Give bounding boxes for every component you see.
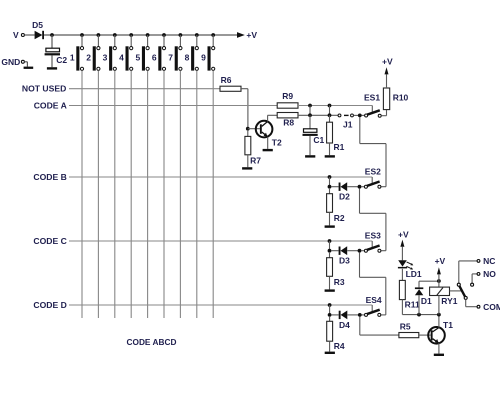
wire CODE A after R9 <box>298 105 372 107</box>
switch ES3 <box>364 246 381 253</box>
svg-text:D5: D5 <box>32 20 43 30</box>
svg-text:V: V <box>13 30 19 40</box>
svg-text:8: 8 <box>185 52 190 62</box>
svg-text:ES3: ES3 <box>365 230 381 240</box>
terminal NO <box>477 273 480 276</box>
junction ES2 chain <box>358 185 362 189</box>
junction rail/S4 <box>129 33 133 37</box>
svg-text:7: 7 <box>168 52 173 62</box>
pushbutton S1 <box>76 46 83 70</box>
wire T2 emitter down <box>267 137 269 149</box>
arrow +V LED <box>400 240 404 247</box>
wire to ES4 <box>362 314 365 316</box>
resistor R11 <box>399 280 405 299</box>
ground T2 <box>263 149 273 151</box>
wire rail to S1 <box>81 35 83 46</box>
diode D4 <box>331 311 358 320</box>
wire to ES2 <box>361 186 364 188</box>
resistor R5 <box>399 333 419 338</box>
arrow +V R10 <box>385 67 389 74</box>
wire down to D4 <box>329 305 331 315</box>
wire down to D2 <box>329 177 331 187</box>
wire chain1 right <box>360 143 386 145</box>
wire to C1 <box>309 115 311 129</box>
wire D1 to +V node <box>419 280 439 282</box>
ground C1 <box>305 155 315 157</box>
pushbutton S3 <box>109 46 116 70</box>
pushbutton S5 <box>142 46 149 70</box>
relay contact NO <box>471 283 474 286</box>
junction R8 line / C1 <box>308 113 312 117</box>
junction ES3 chain <box>358 249 362 253</box>
svg-text:CODE D: CODE D <box>33 300 66 310</box>
LED LD1 <box>398 260 413 269</box>
junction rail/S9 <box>211 33 215 37</box>
junction R8 line / R1 <box>328 113 332 117</box>
junction ES4 chain <box>358 313 362 317</box>
wire rail to S7 <box>179 35 181 46</box>
svg-text:5: 5 <box>135 52 140 62</box>
wire node down 2 <box>329 106 331 116</box>
svg-text:R10: R10 <box>393 92 409 102</box>
svg-text:C2: C2 <box>56 55 67 65</box>
pushbutton S8 <box>191 46 198 70</box>
ground R4 <box>325 352 335 354</box>
svg-text:CODE ABCD: CODE ABCD <box>127 337 177 347</box>
transistor T1 <box>428 327 445 344</box>
junction rail/S3 <box>113 33 117 37</box>
svg-text:R7: R7 <box>250 155 261 165</box>
wire chain4 to R5 <box>360 334 399 336</box>
wire +V rail <box>44 34 237 36</box>
svg-text:ES1: ES1 <box>364 92 380 102</box>
wire D1 down <box>418 295 420 314</box>
switch ES1 <box>365 110 382 117</box>
svg-text:+V: +V <box>398 229 409 239</box>
wire node down 1 <box>309 106 311 116</box>
terminal GND <box>21 60 24 63</box>
wire rail to S5 <box>147 35 149 46</box>
wire to R1 <box>329 115 331 122</box>
resistor R10 <box>383 88 389 110</box>
wire up to R10 <box>386 110 388 116</box>
svg-text:1: 1 <box>70 52 75 62</box>
wire chain3 to ES4 <box>381 314 386 316</box>
wire chain1 down2 <box>385 144 387 187</box>
wire CODE C line <box>69 240 372 242</box>
wire arrow to node <box>438 274 440 281</box>
ground R1 <box>325 155 335 157</box>
diode D2 <box>331 182 358 191</box>
svg-text:D4: D4 <box>339 320 350 330</box>
wire COM right <box>466 306 478 308</box>
diode D1 <box>415 287 423 295</box>
svg-text:2: 2 <box>86 52 91 62</box>
junction C2/rail <box>50 33 54 37</box>
resistor R7 <box>245 136 251 154</box>
wire R2 to ground <box>329 212 331 225</box>
svg-text:ES4: ES4 <box>366 295 382 305</box>
svg-text:COM: COM <box>483 302 500 312</box>
resistor R2 <box>327 194 333 213</box>
svg-text:R6: R6 <box>221 75 232 85</box>
svg-text:CODE A: CODE A <box>34 101 67 111</box>
wire R7 to ground <box>247 155 249 167</box>
svg-text:GND: GND <box>1 57 20 67</box>
resistor R6 <box>220 86 241 91</box>
wire relay bottom node <box>402 314 439 316</box>
arrow +V relay <box>437 267 441 274</box>
svg-text:D2: D2 <box>339 192 350 202</box>
pushbutton S7 <box>175 46 182 70</box>
wire COM down <box>465 299 467 306</box>
wire to D1 <box>418 281 420 287</box>
wire column S2 <box>97 71 99 319</box>
svg-text:R5: R5 <box>400 321 411 331</box>
wire rail to S2 <box>97 35 99 46</box>
svg-text:R3: R3 <box>334 277 345 287</box>
wire +V to LED <box>401 247 403 261</box>
relay contact pivot <box>457 283 460 286</box>
ground T1 <box>434 354 444 356</box>
wire rail to S6 <box>163 35 165 46</box>
wire ES1 to R10 <box>381 115 386 117</box>
svg-text:+V: +V <box>246 30 257 40</box>
wire chain2 to ES3 <box>381 250 386 252</box>
svg-text:D1: D1 <box>421 296 432 306</box>
svg-text:R8: R8 <box>283 118 294 128</box>
terminal NC <box>477 260 480 263</box>
wire rail to S9 <box>212 35 214 46</box>
resistor R8 <box>277 113 298 118</box>
wire to ES1 <box>362 114 365 116</box>
wire R6 down to T2 base <box>247 89 249 129</box>
wire down to D3 <box>329 241 331 251</box>
junction rail/S6 <box>162 33 166 37</box>
junction rail/S5 <box>146 33 150 37</box>
wire GND <box>24 61 27 63</box>
wire NOT USED line <box>69 88 220 90</box>
wire chain2 down <box>359 188 361 213</box>
wire rail to S4 <box>130 35 132 46</box>
wire CODE B down to ES2 lever <box>371 177 373 184</box>
ground C2 <box>47 67 57 69</box>
wire CODE A line <box>69 105 277 107</box>
junction D1 bottom <box>417 313 421 317</box>
wire chain1 to ES2 <box>381 186 386 188</box>
svg-text:R11: R11 <box>405 300 420 310</box>
wire node to coil <box>438 281 440 287</box>
svg-text:4: 4 <box>119 52 124 62</box>
resistor R1 <box>327 122 333 143</box>
resistor R4 <box>327 321 333 341</box>
wire NO down <box>471 274 473 283</box>
wire column S9 <box>212 71 214 319</box>
resistor R9 <box>277 103 298 108</box>
junction CODE A / R1 <box>328 104 332 108</box>
junction T2 base <box>246 127 250 131</box>
svg-text:NOT USED: NOT USED <box>22 84 66 94</box>
wire chain2 down2 <box>385 213 387 250</box>
switch ES2 <box>364 182 381 189</box>
svg-text:9: 9 <box>201 52 206 62</box>
wire CODE B line <box>69 176 372 178</box>
wire column S5 <box>147 71 149 319</box>
svg-text:+V: +V <box>382 57 393 67</box>
junction rail/S1 <box>80 33 84 37</box>
wire NO right <box>472 273 477 275</box>
svg-text:RY1: RY1 <box>441 296 457 306</box>
svg-text:LD1: LD1 <box>406 269 422 279</box>
svg-text:D3: D3 <box>339 256 350 266</box>
svg-text:CODE B: CODE B <box>33 172 66 182</box>
wire to R4 <box>329 316 331 321</box>
wire NC down <box>458 261 460 283</box>
wire column S1 <box>81 71 83 319</box>
wire column S7 <box>179 71 181 319</box>
wire coil to bottom node <box>438 296 440 315</box>
wire R6 right <box>241 88 248 90</box>
junction CODE A / C1 <box>308 104 312 108</box>
capacitor C2 <box>45 48 60 55</box>
svg-text:T1: T1 <box>443 320 453 330</box>
svg-text:R9: R9 <box>282 91 293 101</box>
junction +V relay <box>437 279 441 283</box>
wire T1 collector up <box>438 315 440 328</box>
wire chain1 down <box>359 117 361 144</box>
wire rail to S8 <box>196 35 198 46</box>
resistor R3 <box>327 258 333 277</box>
ground R2 <box>325 225 335 227</box>
jumper J1 <box>338 114 358 117</box>
capacitor C1 <box>303 129 318 136</box>
pushbutton S4 <box>126 46 133 70</box>
junction D2/R2 <box>328 185 332 189</box>
wire column S8 <box>196 71 198 319</box>
wire R8 to J1 <box>298 114 338 116</box>
relay lever end <box>464 296 467 299</box>
junction rail/S2 <box>97 33 101 37</box>
wire C1 to ground <box>309 136 311 155</box>
wire CODE A down to ES1 lever <box>371 106 373 114</box>
junction rail/S8 <box>195 33 199 37</box>
svg-text:R1: R1 <box>334 142 345 152</box>
wire R10 to +V <box>386 74 388 88</box>
wire to R3 <box>329 252 331 258</box>
svg-text:+V: +V <box>435 256 446 266</box>
switch ES4 <box>365 310 381 317</box>
wire to R2 <box>329 188 331 194</box>
wire column S3 <box>114 71 116 319</box>
junction ES1 chain <box>358 114 362 118</box>
pushbutton S9 <box>208 46 215 70</box>
wire C2 to ground <box>51 55 53 67</box>
wire to ES3 <box>361 250 364 252</box>
wire GND down <box>26 62 28 67</box>
wire T2 collector up <box>267 115 269 121</box>
arrow +V rail <box>237 32 245 38</box>
wire R5 to T1 base <box>419 334 431 336</box>
svg-text:C1: C1 <box>313 135 324 145</box>
wire R3 to ground <box>329 276 331 289</box>
svg-text:6: 6 <box>152 52 157 62</box>
wire R1 to ground <box>329 143 331 155</box>
ground R3 <box>325 289 335 291</box>
wire chain4 down <box>359 317 361 336</box>
svg-text:T2: T2 <box>272 138 282 148</box>
junction D4/R4 <box>328 313 332 317</box>
wire R4 to ground <box>329 341 331 351</box>
wire chain3 right <box>360 276 386 278</box>
wire to C2 <box>51 35 53 48</box>
transistor T2 <box>256 121 273 138</box>
wire LED to R11 <box>401 269 403 281</box>
svg-text:NO: NO <box>483 269 496 279</box>
wire to T2 base <box>248 128 260 130</box>
pushbutton S6 <box>158 46 165 70</box>
svg-text:J1: J1 <box>343 119 353 129</box>
ground R7 <box>242 167 252 169</box>
ground GND terminal <box>24 67 34 69</box>
junction CODE B <box>328 175 332 179</box>
svg-text:NC: NC <box>483 256 495 266</box>
wire CODE D down to ES4 lever <box>371 305 373 312</box>
wire NC right <box>459 260 477 262</box>
wire coil to armature <box>450 290 463 292</box>
wire chain3 down <box>359 252 361 277</box>
pushbutton S2 <box>93 46 100 70</box>
wire V to D5 <box>24 34 34 36</box>
diode D5 <box>35 31 44 39</box>
wire T1 emitter down <box>438 343 440 353</box>
junction CODE D <box>328 303 332 307</box>
wire CODE D line <box>69 304 372 306</box>
junction coil bottom / T1 <box>437 313 441 317</box>
wire CODE C down to ES3 lever <box>371 241 373 248</box>
junction D3/R3 <box>328 249 332 253</box>
svg-text:3: 3 <box>103 52 108 62</box>
terminal COM <box>477 305 480 308</box>
terminal V <box>21 34 24 37</box>
wire to R8 <box>268 114 278 116</box>
junction CODE C <box>328 239 332 243</box>
svg-text:R4: R4 <box>334 341 345 351</box>
wire rail to S3 <box>114 35 116 46</box>
junction rail/S7 <box>179 33 183 37</box>
relay coil RY1 <box>430 287 450 295</box>
svg-text:ES2: ES2 <box>365 166 381 176</box>
wire chain2 right <box>360 212 386 214</box>
diode D3 <box>331 246 358 255</box>
wire column S6 <box>163 71 165 319</box>
relay lever <box>459 286 465 298</box>
wire R11 down <box>401 300 403 315</box>
wire column S4 <box>130 71 132 319</box>
svg-text:CODE C: CODE C <box>33 236 66 246</box>
svg-text:R2: R2 <box>334 213 345 223</box>
wire to R7 <box>247 130 249 136</box>
wire chain3 down2 <box>385 277 387 315</box>
